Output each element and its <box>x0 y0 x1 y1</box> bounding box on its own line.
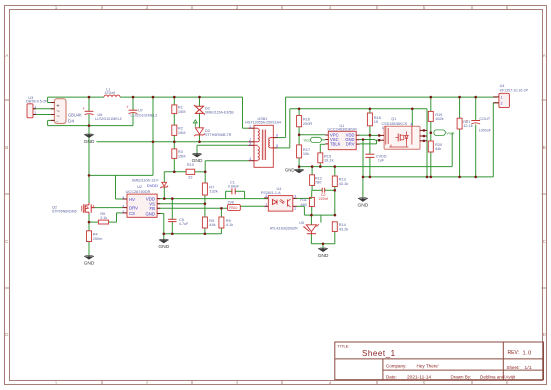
svg-text:162k: 162k <box>435 116 443 121</box>
svg-text:LLS2G101MELZ: LLS2G101MELZ <box>131 114 159 118</box>
svg-text:DRV: DRV <box>129 205 138 210</box>
svg-text:B: B <box>5 145 8 150</box>
svg-text:1000uF: 1000uF <box>479 129 492 133</box>
svg-text:3: 3 <box>236 381 239 386</box>
svg-text:GND: GND <box>285 167 295 172</box>
svg-text:2.1k: 2.1k <box>100 216 107 220</box>
svg-text:CS: CS <box>129 211 135 216</box>
svg-text:Deblina and Avijit: Deblina and Avijit <box>480 374 516 379</box>
svg-text:Vcc: Vcc <box>304 138 311 143</box>
svg-text:Q1: Q1 <box>391 117 396 121</box>
svg-text:Date:: Date: <box>386 374 397 379</box>
svg-text:STP05N60DM6: STP05N60DM6 <box>52 210 77 214</box>
svg-text:43.2k: 43.2k <box>339 226 349 231</box>
svg-text:15M: 15M <box>178 109 186 114</box>
svg-text:UCC28740DR: UCC28740DR <box>126 189 151 194</box>
svg-text:1: 1 <box>265 203 267 207</box>
svg-text:SMBJ110A-13-F: SMBJ110A-13-F <box>132 178 160 182</box>
svg-text:250m: 250m <box>93 236 103 241</box>
svg-text:B: B <box>543 145 546 150</box>
svg-text:2: 2 <box>294 207 296 211</box>
svg-text:3: 3 <box>236 5 239 10</box>
svg-text:1: 1 <box>501 96 503 100</box>
svg-text:132k: 132k <box>209 189 217 194</box>
svg-text:1uF: 1uF <box>378 159 385 163</box>
svg-text:44k: 44k <box>435 146 441 151</box>
svg-text:4.1k: 4.1k <box>226 222 233 227</box>
svg-text:4.7uF: 4.7uF <box>179 222 189 226</box>
svg-text:GND: GND <box>84 260 95 266</box>
svg-text:DVDD: DVDD <box>147 183 158 188</box>
svg-text:2: 2 <box>146 381 149 386</box>
svg-text:10k: 10k <box>303 151 309 156</box>
svg-text:2: 2 <box>501 102 503 106</box>
svg-text:44k: 44k <box>209 222 215 227</box>
svg-text:KF1357-10.16-2P: KF1357-10.16-2P <box>500 89 529 93</box>
svg-text:PS2811-1-A: PS2811-1-A <box>261 191 281 195</box>
svg-text:R11: R11 <box>300 198 307 202</box>
svg-text:D4: D4 <box>68 119 74 125</box>
svg-text:DRV: DRV <box>346 142 355 147</box>
svg-text:3: 3 <box>294 195 296 199</box>
svg-text:43.1k: 43.1k <box>339 181 349 186</box>
svg-text:HV: HV <box>129 197 135 202</box>
svg-text:LLS2G101MELZ: LLS2G101MELZ <box>95 117 123 121</box>
svg-text:C5: C5 <box>179 218 184 222</box>
svg-text:GND: GND <box>84 139 95 145</box>
svg-text:GND: GND <box>357 203 368 209</box>
svg-text:6: 6 <box>506 5 509 10</box>
svg-text:UCC24630DBVR: UCC24630DBVR <box>328 128 358 132</box>
svg-text:0.68uF: 0.68uF <box>228 185 240 189</box>
svg-text:4: 4 <box>329 381 332 386</box>
svg-text:TBLK: TBLK <box>330 142 341 147</box>
svg-text:Hey There': Hey There' <box>417 364 439 369</box>
svg-text:Sheet_1: Sheet_1 <box>362 349 396 358</box>
svg-text:SMBJ115A-E3/5B: SMBJ115A-E3/5B <box>205 110 234 114</box>
svg-text:1: 1 <box>382 126 384 130</box>
svg-text:TITLE:: TITLE: <box>338 344 350 349</box>
svg-text:6: 6 <box>506 381 509 386</box>
svg-text:U4: U4 <box>500 84 505 88</box>
svg-text:1: 1 <box>249 124 251 128</box>
svg-text:GND: GND <box>158 244 169 250</box>
svg-text:19.1k: 19.1k <box>324 157 334 162</box>
svg-text:GND: GND <box>192 158 203 164</box>
svg-text:U7: U7 <box>138 108 143 112</box>
svg-text:FB10: FB10 <box>229 206 237 210</box>
svg-text:4: 4 <box>329 5 332 10</box>
svg-text:680: 680 <box>301 203 307 207</box>
svg-text:200R: 200R <box>303 121 312 126</box>
svg-text:+: + <box>82 106 85 111</box>
svg-text:GND: GND <box>318 253 329 259</box>
svg-text:Sheet:: Sheet: <box>507 365 520 370</box>
svg-text:15M: 15M <box>178 130 186 135</box>
svg-text:GBU4K: GBU4K <box>68 113 82 118</box>
svg-text:3: 3 <box>249 142 251 146</box>
svg-text:+: + <box>126 105 129 110</box>
svg-text:15: 15 <box>374 119 378 124</box>
svg-text:780: 780 <box>315 180 322 185</box>
svg-text:1: 1 <box>55 381 58 386</box>
svg-text:5: 5 <box>423 381 426 386</box>
svg-text:DBTB-0.5-2P: DBTB-0.5-2P <box>26 100 48 104</box>
svg-text:5: 5 <box>276 144 278 148</box>
svg-text:4: 4 <box>411 123 413 127</box>
svg-text:STTH5R06B-TR: STTH5R06B-TR <box>205 133 232 137</box>
svg-text:+: + <box>466 119 469 124</box>
svg-text:Company:: Company: <box>386 364 407 369</box>
svg-text:15M: 15M <box>178 153 186 158</box>
svg-text:1.0: 1.0 <box>523 350 532 356</box>
svg-text:3V8: 3V8 <box>228 200 234 204</box>
svg-text:REV:: REV: <box>508 350 519 356</box>
svg-text:6: 6 <box>276 134 278 138</box>
svg-text:2021-11-14: 2021-11-14 <box>407 374 432 380</box>
svg-text:GND: GND <box>145 211 155 216</box>
svg-text:22: 22 <box>188 176 192 180</box>
svg-text:ATL431BQDBZR: ATL431BQDBZR <box>270 227 298 231</box>
svg-text:1/1: 1/1 <box>525 365 533 370</box>
svg-text:-: - <box>56 118 58 124</box>
svg-text:470uH: 470uH <box>105 91 116 95</box>
svg-text:U5: U5 <box>299 221 304 225</box>
svg-text:CSD18536KCS: CSD18536KCS <box>382 122 408 126</box>
svg-text:Drawn By:: Drawn By: <box>451 374 472 379</box>
svg-text:4: 4 <box>249 157 251 161</box>
svg-text:COUT: COUT <box>479 117 490 121</box>
svg-text:4: 4 <box>265 194 267 198</box>
svg-text:Vout: Vout <box>446 131 455 136</box>
svg-text:220nf: 220nf <box>319 197 328 201</box>
svg-text:2: 2 <box>146 5 149 10</box>
svg-text:1: 1 <box>55 5 58 10</box>
svg-text:5: 5 <box>423 5 426 10</box>
